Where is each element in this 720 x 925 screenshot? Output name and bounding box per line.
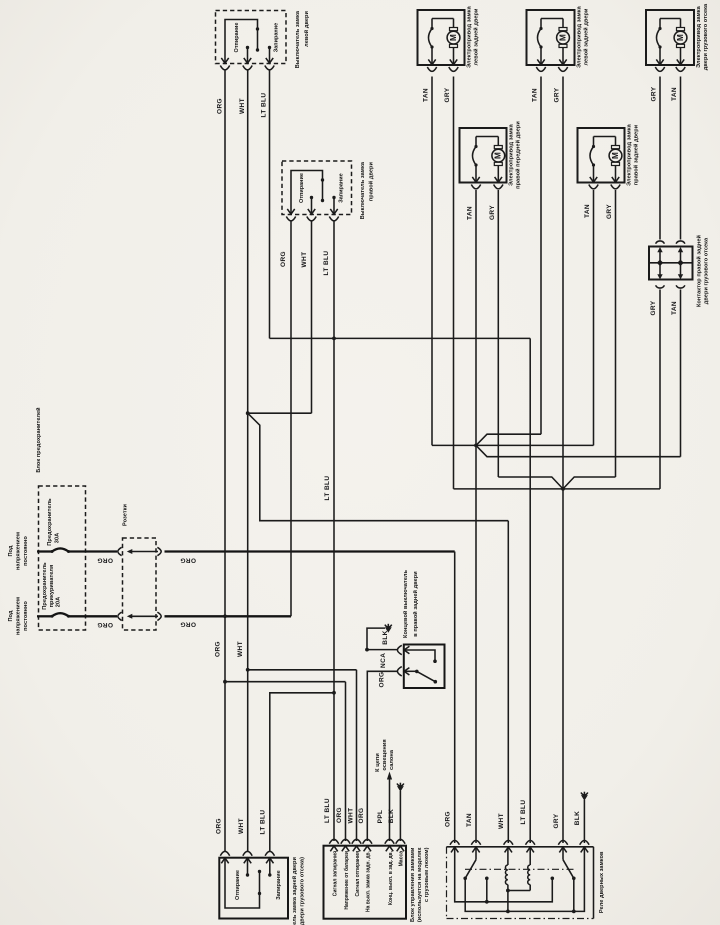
- fuse F1 Предохранитель 30A: [37, 550, 52, 552]
- svg-text:Конц. выкл. в зад. дв.: Конц. выкл. в зад. дв.: [388, 850, 394, 905]
- junction dot WHT lower: [246, 668, 250, 672]
- svg-text:правой задней двери: правой задней двери: [633, 124, 640, 185]
- svg-text:GRY: GRY: [444, 87, 451, 102]
- svg-text:постоянно: постоянно: [23, 536, 29, 566]
- switch: Выключатель замка задней двери / двери грузового отсека (box): [219, 858, 288, 919]
- junction dot LT BLU lower: [332, 691, 336, 695]
- relay pin TAN: [472, 847, 479, 852]
- svg-text:левой двери: левой двери: [303, 11, 310, 47]
- wire BLK relay to ground: [583, 800, 585, 843]
- svg-text:Предохранитель: Предохранитель: [42, 562, 48, 610]
- svg-text:Отпирание: Отпирание: [235, 870, 241, 900]
- svg-text:M: M: [676, 34, 685, 41]
- contactor pin TAN pass-through: [678, 247, 683, 252]
- svg-text:GRY: GRY: [553, 813, 560, 828]
- svg-text:LT BLU: LT BLU: [324, 798, 331, 823]
- wire WHT branch down to relay: [507, 521, 509, 843]
- wire TAN bus M1-M5: [432, 444, 594, 446]
- svg-text:GRY: GRY: [606, 204, 613, 219]
- rear door switch internal contacts: [225, 858, 260, 908]
- wire WHT right switch vertical: [311, 222, 313, 414]
- relay mechanical linkage (dash-dot): [465, 868, 574, 870]
- svg-text:BLK: BLK: [382, 630, 389, 645]
- svg-text:правой передней двери: правой передней двери: [515, 121, 522, 189]
- contactor lower connector cups: [656, 285, 665, 288]
- wire TAN contactor down: [680, 290, 682, 457]
- wire GRY actuator M5: [615, 190, 617, 477]
- contactor upper connector cups: [656, 241, 665, 244]
- control unit pin 4 На выкл. замка задн. дв.: [364, 846, 371, 851]
- svg-text:напряжением: напряжением: [16, 532, 22, 570]
- svg-text:Отпирание: Отпирание: [234, 23, 240, 53]
- junction dot LT BLU at right switch wire: [332, 337, 336, 341]
- wire LT BLU branch down to relay: [529, 338, 531, 843]
- wire TAN spur to M3/contactor: [476, 445, 681, 456]
- svg-text:салона: салона: [389, 749, 395, 770]
- ground (control unit BLK): [397, 786, 404, 792]
- wire GRY actuator M1: [453, 77, 455, 489]
- relay coil 1 (WHT unlock winding): [507, 848, 509, 866]
- actuator M1: Электропривод замка левой задней двери: [418, 10, 465, 65]
- left door switch internal contacts: [225, 20, 258, 63]
- contactor pin GRY pass-through: [657, 247, 662, 252]
- wire BLK control unit to ground: [399, 791, 401, 841]
- svg-text:LT BLU: LT BLU: [324, 475, 331, 500]
- svg-text:Выключатель замка: Выключатель замка: [360, 161, 366, 219]
- wire ORG to control unit pin 2: [225, 681, 346, 683]
- junction dot TAN bus: [474, 444, 478, 448]
- wire TAN actuator M1: [431, 77, 433, 446]
- module: Блок управления замками (box): [324, 846, 407, 919]
- jamb switch internal contact (upper): [404, 650, 435, 661]
- wire TAN spur to M2: [476, 434, 541, 445]
- svg-text:TAN: TAN: [532, 88, 539, 102]
- relay coil common tie: [508, 890, 530, 892]
- relay TAN armature lever: [475, 848, 477, 860]
- wire LT BLU left switch vertical: [269, 71, 271, 339]
- svg-text:WHT: WHT: [237, 641, 244, 657]
- wire WHT jog down to relay branch: [248, 413, 509, 521]
- junction dot ORG lower: [223, 680, 227, 684]
- rear door switch terminal pins: [221, 858, 228, 863]
- wire GRY actuator M3 to contactor: [659, 77, 661, 240]
- svg-text:Предохранитель: Предохранитель: [47, 498, 53, 546]
- svg-text:Отпирание: Отпирание: [299, 173, 305, 203]
- relay pin BLK: [581, 847, 588, 852]
- wire ORG right switch vertical: [290, 222, 292, 617]
- svg-text:ORG: ORG: [358, 807, 365, 823]
- svg-text:ORG: ORG: [280, 251, 287, 267]
- svg-text:ORG: ORG: [215, 641, 222, 657]
- svg-text:Электропривод замка: Электропривод замка: [577, 5, 583, 68]
- wire TAN actuator M4 down to relay: [475, 190, 477, 843]
- jamb switch pin ORG: [404, 668, 409, 675]
- wire GRY spur M4 to junction: [498, 477, 563, 489]
- svg-text:LT BLU: LT BLU: [261, 92, 268, 117]
- svg-text:WHT: WHT: [301, 252, 308, 268]
- jamb switch pin BLK: [404, 646, 409, 653]
- svg-text:левой задней двери: левой задней двери: [473, 8, 480, 66]
- svg-text:постоянно: постоянно: [23, 601, 29, 631]
- actuator M2: Электропривод замка левой задней двери: [527, 10, 575, 65]
- svg-text:двери грузового отсека: двери грузового отсека: [704, 237, 710, 304]
- svg-text:ORG: ORG: [180, 620, 196, 627]
- svg-text:Запирание: Запирание: [276, 870, 282, 899]
- svg-text:ORG: ORG: [217, 98, 224, 114]
- svg-text:M: M: [558, 34, 567, 41]
- wire ORG jamb switch to control unit pin 4: [367, 671, 397, 841]
- relay BLK ground rail to outer contacts: [465, 848, 584, 912]
- svg-text:Напряжение от батареи: Напряжение от батареи: [343, 851, 350, 910]
- control unit pin 6 Масса: [397, 846, 404, 851]
- svg-text:GRY: GRY: [554, 87, 561, 102]
- relay coil 2 (LT BLU lock winding): [529, 848, 531, 866]
- svg-text:Реле дверных замков: Реле дверных замков: [599, 851, 605, 913]
- svg-text:Сигнал запирания: Сигнал запирания: [332, 851, 338, 896]
- svg-text:Электропривод замка: Электропривод замка: [467, 5, 473, 68]
- svg-text:Электропривод замка: Электропривод замка: [509, 123, 515, 186]
- svg-text:NCA: NCA: [380, 653, 387, 668]
- actuator M4: Электропривод замка правой передней двери: [460, 128, 507, 183]
- svg-text:GRY: GRY: [650, 300, 657, 315]
- svg-text:M: M: [494, 152, 503, 159]
- relay: Реле дверных замков (box): [447, 846, 594, 848]
- svg-text:освещения: освещения: [382, 739, 388, 770]
- svg-text:BLK: BLK: [388, 809, 395, 824]
- svg-text:GRY: GRY: [651, 86, 658, 101]
- svg-text:TAN: TAN: [671, 301, 678, 315]
- svg-text:Электропривод замка: Электропривод замка: [696, 5, 702, 68]
- svg-text:TAN: TAN: [671, 87, 678, 101]
- wire GRY bus M1 to M3: [454, 488, 661, 490]
- svg-text:20А: 20А: [56, 597, 62, 607]
- svg-text:Концевой выключатель: Концевой выключатель: [402, 570, 409, 638]
- wire GRY actuator M4: [497, 190, 499, 477]
- wire LT BLU bus: switches to relay branch: [270, 337, 531, 339]
- svg-text:ORG: ORG: [336, 807, 343, 823]
- svg-text:(двери грузового отсека): (двери грузового отсека): [300, 857, 306, 925]
- svg-text:TAN: TAN: [467, 206, 474, 220]
- switch: Выключатель замка левой двери (dashed box): [216, 11, 287, 64]
- connector block: Контактор правой задней двери грузового отсека: [649, 247, 693, 280]
- fuse F2 Предохранитель прикуривателя 20A: [37, 615, 52, 617]
- svg-text:WHT: WHT: [238, 818, 245, 834]
- svg-text:Под: Под: [8, 610, 14, 621]
- svg-text:ORG: ORG: [379, 671, 386, 687]
- svg-text:правой двери: правой двери: [368, 161, 375, 201]
- junction dot GRY bus: [561, 487, 565, 491]
- svg-text:Под: Под: [8, 545, 14, 556]
- svg-text:левой задней двери: левой задней двери: [583, 8, 590, 66]
- svg-text:напряжением: напряжением: [16, 597, 22, 635]
- wire ORG 30A branch down to relay: [454, 552, 456, 844]
- svg-text:WHT: WHT: [498, 813, 505, 829]
- wire TAN actuator M5: [593, 190, 595, 445]
- wire ORG left switch vertical: [224, 71, 226, 853]
- wire LT BLU right switch vertical: [333, 222, 335, 842]
- svg-text:(используется на моделях: (используется на моделях: [417, 847, 423, 922]
- svg-text:30А: 30А: [55, 533, 61, 543]
- actuator M5: Электропривод замка правой задней двери: [578, 128, 625, 183]
- switch: Концевой выключатель в правой задней двери (box): [404, 645, 445, 689]
- relay pin WHT: [505, 847, 512, 852]
- svg-text:M: M: [611, 152, 620, 159]
- svg-text:ORG: ORG: [97, 621, 113, 628]
- wire PPL to interior lamps circuit (arrow up): [389, 777, 391, 841]
- svg-text:ORG: ORG: [97, 557, 113, 564]
- left door switch terminal pins: [221, 58, 228, 63]
- relay pin ORG: [451, 847, 458, 852]
- wire GRY spur M5 to junction: [563, 477, 616, 489]
- svg-text:ORG: ORG: [180, 557, 196, 564]
- svg-text:двери грузового отсека: двери грузового отсека: [703, 3, 709, 70]
- svg-text:Блок управления замками: Блок управления замками: [410, 847, 416, 922]
- fuse block: Блок предохранителей (dashed box): [39, 486, 86, 630]
- svg-text:WHT: WHT: [239, 98, 246, 114]
- right door switch internal contacts: [291, 171, 323, 214]
- svg-text:На выкл. замка задн. дв.: На выкл. замка задн. дв.: [366, 850, 372, 912]
- junction dot ORG 20A / left switch ORG: [223, 614, 227, 618]
- control unit pin 5 Конц. выкл. в зад. дв.: [386, 846, 393, 851]
- svg-text:TAN: TAN: [423, 88, 430, 102]
- wire WHT to control unit pin 3: [248, 669, 357, 671]
- relay pin LT BLU: [527, 847, 534, 852]
- jamb switch internal lever (lower): [404, 670, 417, 672]
- wire TAN actuator M3 to contactor: [680, 77, 682, 240]
- right door switch terminal pins: [287, 209, 294, 214]
- svg-text:Электропривод замка: Электропривод замка: [627, 123, 633, 186]
- svg-text:WHT: WHT: [347, 808, 354, 824]
- svg-text:Запирание: Запирание: [339, 173, 345, 202]
- wire BLK jamb switch to ground: [367, 649, 397, 651]
- in-line connectors: Розетки (dashed box): [123, 538, 157, 630]
- wire ORG from 30A connector to relay branch: [165, 550, 455, 552]
- svg-text:с грузовым люком): с грузовым люком): [424, 847, 430, 902]
- junction dot WHT: [246, 411, 250, 415]
- actuator M3: Электропривод замка двери грузового отсека: [646, 10, 694, 65]
- ground (jamb switch BLK): [385, 627, 392, 633]
- svg-text:ORG: ORG: [445, 811, 452, 827]
- wire ORG from 20A connector to door switches: [165, 615, 292, 617]
- wire TAN actuator M2: [540, 77, 542, 435]
- contactor middle bus bar: [649, 262, 693, 264]
- svg-text:LT BLU: LT BLU: [323, 250, 330, 275]
- svg-text:К цепи: К цепи: [375, 753, 381, 772]
- relay pin GRY: [559, 847, 566, 852]
- wire WHT left switch vertical: [247, 71, 249, 853]
- svg-text:Блок предохранителей: Блок предохранителей: [35, 407, 42, 473]
- connector pair on 20A ORG wire: [69, 615, 118, 617]
- svg-text:PPL: PPL: [377, 810, 384, 824]
- wire GRY actuator M2 down to relay: [562, 77, 564, 844]
- svg-text:Сигнал отпирания: Сигнал отпирания: [355, 851, 361, 897]
- svg-text:ORG: ORG: [216, 818, 223, 834]
- svg-text:M: M: [449, 34, 458, 41]
- control unit pin 1 Сигнал запирания: [330, 846, 337, 851]
- wire WHT link between switches: [248, 412, 312, 414]
- wire LT BLU to rear-door switch: [270, 693, 334, 852]
- svg-text:Розетки: Розетки: [123, 503, 129, 526]
- wire GRY contactor down: [659, 290, 661, 489]
- ground (relay BLK): [581, 795, 588, 801]
- connector pair on 30A ORG wire: [69, 550, 118, 552]
- svg-text:TAN: TAN: [466, 813, 473, 827]
- svg-text:BLK: BLK: [574, 811, 581, 826]
- svg-text:Контактор правой задней: Контактор правой задней: [696, 234, 703, 307]
- control unit pin 3 Сигнал отпирания: [353, 846, 360, 851]
- svg-text:LT BLU: LT BLU: [260, 809, 267, 834]
- control unit pin 2 Напряжение от батареи: [342, 846, 349, 851]
- svg-text:прикуривателя: прикуривателя: [49, 565, 55, 608]
- svg-text:LT BLU: LT BLU: [520, 799, 527, 824]
- svg-text:в правой задней двери: в правой задней двери: [412, 571, 419, 637]
- svg-text:Запирание: Запирание: [274, 23, 280, 52]
- svg-text:TAN: TAN: [584, 204, 591, 218]
- relay ORG feed rail to centre contacts: [455, 848, 553, 902]
- relay GRY armature lever: [562, 848, 564, 860]
- switch: Выключатель замка правой двери (dashed box): [282, 161, 352, 215]
- svg-text:Выключатель замка задней двери: Выключатель замка задней двери: [291, 856, 298, 925]
- svg-text:Масса: Масса: [399, 851, 405, 867]
- svg-text:Выключатель замка: Выключатель замка: [295, 10, 301, 68]
- svg-text:GRY: GRY: [489, 205, 496, 220]
